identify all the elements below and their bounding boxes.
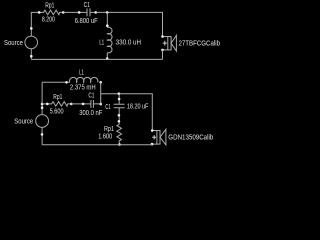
inductor L1 (bottom series, 2.375 mH) [42, 81, 70, 83]
svg-text:5.600: 5.600 [50, 109, 64, 116]
node: V1 bottom pin [30, 55, 33, 58]
wire: Rp1b to C1b [71, 103, 91, 105]
node: C1s pin 1 [118, 98, 121, 101]
resistor Rp1 (top, 8.200 ohm) [39, 10, 63, 15]
speaker U1 27TBFCGCalib (tweeter) [163, 37, 168, 50]
svg-text:Source: Source [14, 118, 33, 125]
node: Rp1s pin 1 [118, 120, 121, 123]
node: C1s pin 2 [118, 114, 121, 117]
capacitor C1 (top series, 6.800 uF) [79, 8, 96, 16]
svg-text:1.600: 1.600 [98, 134, 112, 141]
svg-text:18.20 uF: 18.20 uF [127, 104, 148, 111]
svg-text:8.200: 8.200 [42, 17, 55, 24]
node: junction top rail / L1 [106, 11, 109, 14]
node: U1 pin + [161, 35, 164, 38]
node: junction feed / shunt branch [118, 92, 121, 95]
node: Rp1s pin 2 / junction bottom rail [118, 143, 121, 146]
svg-text:330.0 uH: 330.0 uH [116, 40, 142, 47]
svg-text:L1: L1 [99, 39, 104, 46]
U1 plus sign [163, 41, 167, 46]
node: C1 pin 1 [78, 11, 81, 14]
svg-text:Rp1: Rp1 [45, 2, 54, 9]
capacitor C1 (bottom RC leg, 300.0 nF) [91, 100, 101, 108]
wire: top circuit bottom rail [31, 58, 162, 60]
resistor Rp1 (bottom RC leg, 5.600 ohm) [42, 102, 71, 107]
node: L1 pin 1 [106, 24, 109, 27]
wire: V2 bottom lead to bottom rail [41, 127, 43, 144]
U2 plus sign [152, 135, 156, 139]
node: C1b pin 1 [82, 103, 85, 106]
wire: bottom circuit bottom rail [42, 144, 152, 146]
node: junction right column / RC row [99, 103, 102, 106]
resistor Rp1 (shunt, 1.600 ohm) [117, 124, 122, 145]
node: Rp1b pin 1 [46, 103, 49, 106]
svg-text:2.375 mH: 2.375 mH [70, 85, 96, 92]
svg-text:C1: C1 [84, 2, 90, 9]
svg-text:C1: C1 [88, 92, 94, 99]
wire: C1 to top-right corner, down to tweeter [96, 12, 163, 36]
node: L1 pin 2 / junction bottom rail [106, 57, 109, 60]
node: V2 top pin [41, 106, 44, 109]
node: U2 pin + [151, 129, 154, 132]
node: Rp1 pin 1 [38, 11, 41, 14]
node: L1b pin 1 [65, 81, 68, 84]
voltage source V2 (bottom circuit) [36, 115, 49, 128]
wire: V2 top lead up to L1 row [41, 82, 43, 114]
wire: Rp1 to C1 [63, 11, 79, 13]
svg-text:Rp1: Rp1 [104, 126, 114, 133]
svg-text:GDN13509Calib: GDN13509Calib [168, 134, 213, 141]
wire: feed from parallel group to woofer [101, 94, 153, 131]
wire: tweeter to bottom rail [162, 50, 164, 60]
svg-text:300.0 nF: 300.0 nF [79, 110, 102, 117]
node: V2 bottom pin [41, 133, 44, 136]
node: Rp1 pin 2 [62, 11, 65, 14]
svg-text:Rp1: Rp1 [53, 94, 62, 101]
node: U2 pin - [151, 143, 154, 146]
node: C1 pin 2 [95, 11, 98, 14]
wire: V1 top lead to top rail [31, 12, 39, 36]
svg-text:L1: L1 [79, 69, 84, 76]
svg-text:C1: C1 [105, 104, 110, 111]
voltage source V1 (top circuit) [25, 36, 38, 49]
inductor L1 (top shunt, 330.0 uH) [106, 12, 108, 27]
node: L1b pin 2 [99, 81, 102, 84]
node: junction left column / RC row [41, 103, 44, 106]
node: U1 pin - [161, 49, 164, 52]
node: Rp1b pin 2 [70, 103, 73, 106]
capacitor C1 (shunt, 18.20 uF) [114, 94, 125, 125]
wire: V1 bottom lead [30, 49, 32, 60]
speaker U2 GDN13509Calib (woofer) [152, 131, 157, 145]
svg-text:6.800 uF: 6.800 uF [75, 18, 98, 25]
svg-text:Source: Source [4, 40, 23, 47]
node: V1 top pin [30, 27, 33, 30]
wire: right column of parallel group [100, 82, 102, 104]
svg-text:27TBFCGCalib: 27TBFCGCalib [179, 41, 221, 48]
